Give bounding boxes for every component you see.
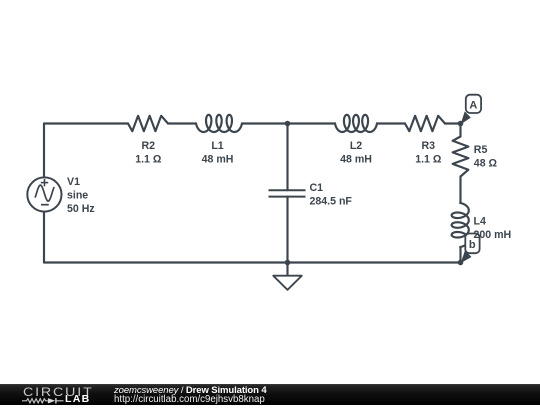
svg-text:sine: sine — [67, 190, 88, 202]
svg-text:L4: L4 — [474, 216, 486, 228]
svg-text:b: b — [469, 239, 476, 251]
svg-text:48 mH: 48 mH — [202, 153, 234, 165]
svg-text:50 Hz: 50 Hz — [67, 203, 95, 215]
svg-text:R5: R5 — [474, 144, 488, 156]
svg-text:48 mH: 48 mH — [340, 153, 372, 165]
svg-text:1.1 Ω: 1.1 Ω — [135, 153, 162, 165]
svg-text:R2: R2 — [142, 140, 156, 152]
svg-text:1.1 Ω: 1.1 Ω — [415, 153, 442, 165]
svg-text:A: A — [469, 100, 477, 112]
svg-text:L2: L2 — [350, 140, 362, 152]
svg-text:48 Ω: 48 Ω — [474, 158, 498, 170]
svg-text:284.5 nF: 284.5 nF — [310, 195, 353, 207]
svg-text:L1: L1 — [211, 140, 223, 152]
svg-text:C1: C1 — [310, 182, 324, 194]
svg-text:V1: V1 — [67, 176, 80, 188]
svg-text:200 mH: 200 mH — [474, 229, 512, 241]
svg-text:R3: R3 — [422, 140, 436, 152]
